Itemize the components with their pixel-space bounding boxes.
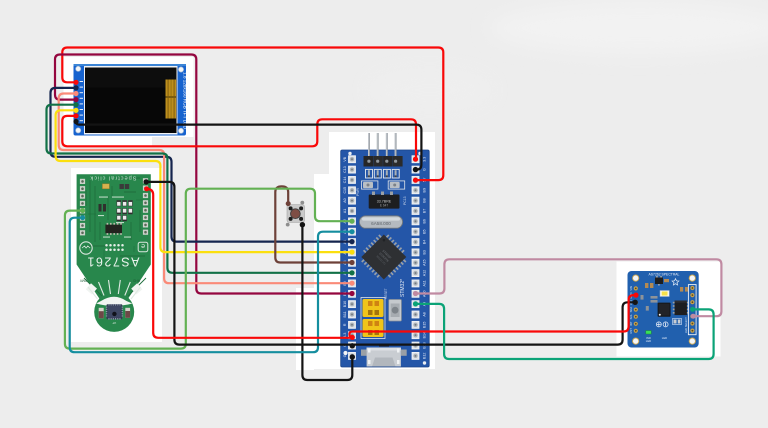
wire W2 maroon: DS1 pin4 to U2 B1 (55, 55, 352, 294)
U1 IC (level shifter) (105, 223, 122, 235)
U2 left pin header with labels VB..G (343, 156, 355, 163)
U1 sensor chip (107, 304, 123, 319)
svg-text:B9: B9 (422, 188, 426, 192)
U1 sensor side capacitors (99, 308, 104, 318)
DS1 flex connector (166, 80, 177, 119)
white mat under spectral click U1 (71, 168, 162, 342)
U2 crystal Y1 "EA58.000" (359, 216, 402, 228)
svg-text:B8: B8 (422, 198, 426, 202)
svg-text:B15: B15 (422, 322, 426, 328)
white mat under blue pill U2 (329, 132, 435, 369)
wire W1 red: DS1 pin1 to U2 5V (62, 48, 443, 181)
svg-text:UT: UT (112, 321, 116, 325)
DS1 mounting hole bottom-left (76, 128, 81, 133)
svg-text:A8: A8 (422, 312, 426, 316)
svg-text:B5: B5 (422, 229, 426, 233)
S1 plunger (290, 208, 301, 219)
svg-text:RESET: RESET (384, 288, 388, 299)
svg-text:R: R (343, 323, 347, 326)
blue pill board U2 (341, 150, 430, 367)
white mat under display DS1 (64, 57, 153, 146)
U3 white LED (660, 291, 669, 297)
S1 body (287, 205, 305, 223)
U2 debug header pins (vertical) (368, 133, 397, 157)
wire W8 black: DS1 pin8 to U2 G (76, 122, 421, 170)
svg-text:C14: C14 (343, 177, 347, 184)
U2 jumper left (362, 181, 378, 189)
wire W16 rose: U2 A10 to U3 SCL (416, 259, 722, 316)
svg-text:Spectral click: Spectral click (90, 174, 136, 180)
wire W17 green: U2 A9 to U3 SDA (416, 304, 714, 359)
svg-text:A12: A12 (422, 270, 426, 276)
S1 corner contacts (289, 206, 293, 210)
svg-text:C15: C15 (343, 187, 347, 194)
svg-text:PC13: PC13 (403, 196, 407, 205)
U2 jumper right (388, 181, 405, 189)
U1 resistors near top (120, 184, 124, 189)
svg-text:PWR: PWR (356, 188, 360, 196)
wire W11 bright green: U1 MISO to U2 A2 (65, 189, 352, 349)
wire W10 black: S1 pin to U2 G bottom (302, 225, 352, 380)
U2 mounting holes (348, 152, 351, 155)
svg-text:DMV: DMV (79, 279, 87, 283)
wire W14 red: U1 3V3 to U2 3.3 pin (147, 189, 353, 338)
svg-text:E 647: E 647 (380, 204, 389, 208)
TFT LCD display module DS1 (74, 64, 188, 136)
U2 debug header plastic (364, 156, 403, 167)
U3 mounting hole top-right (689, 275, 696, 282)
svg-text:C13: C13 (343, 166, 347, 173)
U3 right pin header box (688, 285, 696, 335)
U1 sensor circle (94, 292, 134, 332)
U3 mounting hole bottom-left (632, 338, 639, 345)
svg-text:LED SELECT: LED SELECT (684, 317, 688, 333)
svg-text:B12: B12 (422, 353, 426, 359)
svg-text:B3: B3 (422, 250, 426, 254)
svg-text:1.8 128x160 RGB TFT LCD: 1.8 128x160 RGB TFT LCD (182, 72, 188, 130)
U1 left angled pad "DMV" (86, 283, 97, 294)
U3 mounting hole bottom-right (689, 338, 696, 345)
U3 right pin holes (690, 286, 694, 333)
Spectral click module U1 (AS7261) (77, 174, 151, 332)
svg-text:B14: B14 (422, 332, 426, 338)
svg-text:RST: RST (629, 328, 633, 334)
U3 polarity symbols (656, 322, 661, 327)
DS1 LCD glass (85, 68, 177, 134)
U2 micro USB connector (361, 350, 367, 356)
svg-text:A0: A0 (343, 198, 347, 202)
U1 header dots grid (105, 244, 124, 251)
S1 top-right leg (300, 201, 304, 205)
U2 BOOT0 jumper (363, 319, 384, 337)
pushbutton S1 (286, 201, 305, 227)
U3 jumper pads (673, 319, 682, 325)
svg-text:A1: A1 (343, 209, 347, 213)
wire W15 red: U2 3.3 pin to U3 VIN (349, 295, 636, 336)
svg-text:G: G (422, 168, 426, 171)
svg-text:RHD: RHD (132, 279, 140, 283)
U1 pcb traces (84, 178, 146, 296)
U3 left pin strip labels (629, 286, 633, 333)
svg-text:B4: B4 (422, 240, 426, 244)
DS1 mounting hole bottom-right (178, 128, 183, 133)
svg-text:LED: LED (646, 339, 651, 343)
svg-text:A11: A11 (422, 280, 426, 286)
U2 right pin header with labels 3.3..B12 (412, 156, 426, 163)
U2 voltage regulator (369, 195, 400, 209)
wire W9 brown: S1 pin to U2 A6 (275, 186, 352, 262)
spectral sensor board U3 (AS7262) (628, 271, 699, 348)
svg-text:VB: VB (343, 156, 347, 161)
U1 PWR LED (102, 184, 109, 189)
U3 AS7262 sensor chip (658, 303, 671, 317)
svg-text:LED: LED (662, 336, 667, 340)
svg-text:B7: B7 (422, 209, 426, 213)
svg-text:3.3: 3.3 (422, 157, 426, 162)
U2 BOOT1 jumper (363, 299, 384, 317)
U1 sensor dome (96, 297, 132, 306)
svg-text:B10: B10 (343, 301, 347, 307)
U1 passives cluster (117, 201, 133, 222)
wire W12 teal: U1 MOSI to U2 A3 (70, 218, 352, 353)
wire W13 black: U1 GND to U2 G to U3 GND (146, 182, 635, 345)
U3 passives (645, 279, 688, 292)
DS1 mounting hole top-left (76, 66, 81, 71)
U2 debug header solder pads (366, 169, 400, 178)
U2 reset button (389, 300, 402, 322)
svg-text:AS7261: AS7261 (87, 255, 139, 269)
DS1 mounting hole top-right (178, 67, 183, 72)
U2 boot jumper pads (361, 298, 385, 339)
svg-text:VIN: VIN (629, 286, 633, 291)
svg-text:AS7262 SPECTRAL: AS7262 SPECTRAL (649, 273, 680, 277)
U2 MCU (STM32F103, rotated 45deg) (357, 230, 411, 284)
wire W3 navy: DS1 pin2 to U2 A4 (51, 88, 353, 242)
svg-text:G: G (343, 354, 347, 357)
U1 MikroE logo ring (80, 242, 92, 254)
S1 bottom-left leg (286, 223, 290, 227)
U3 mounting hole top-left (632, 275, 639, 282)
U3 SOT23 regulator (655, 278, 663, 285)
svg-text:A15: A15 (422, 259, 426, 265)
U1 radial rays (88, 280, 141, 299)
wire W7 red: DS1 pin7 to U2 3.3 (62, 116, 416, 159)
svg-text:B11: B11 (343, 311, 347, 317)
U2 right pin header (412, 156, 426, 360)
U1 e-logo (138, 242, 148, 252)
U2 left pin header (343, 156, 355, 360)
U1 mikroBUS right pads (143, 178, 148, 235)
U1 mikroBUS left pads (80, 179, 85, 236)
U1 silk tiny labels (98, 197, 131, 238)
svg-text:B6: B6 (422, 219, 426, 223)
svg-text:e: e (141, 242, 145, 249)
svg-text:6A58.000: 6A58.000 (371, 221, 391, 226)
wire W4 salmon: DS1 pin3 to U2 B0 (59, 94, 352, 284)
DS1 pin label strip (80, 81, 83, 121)
wire W6 yellow: DS1 pin6 to U2 A5 (56, 110, 352, 252)
U3 SOIC8 (675, 301, 688, 316)
U3 adafruit star (672, 279, 679, 285)
DS1 screen bezel (84, 66, 178, 135)
white mat under sensor board U3 (617, 262, 721, 357)
svg-text:STM32*: STM32* (400, 279, 406, 297)
wire W5 dark green: DS1 pin5 to U2 A7 (47, 105, 353, 273)
U3 left pin holes (634, 286, 638, 333)
U3 green indicator LED (646, 331, 651, 334)
U1 right angled pad "RHD" (131, 283, 142, 294)
